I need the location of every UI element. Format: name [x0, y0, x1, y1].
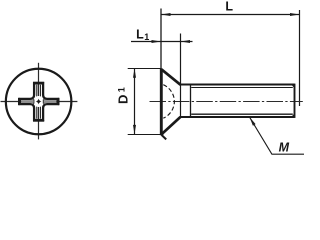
extension line above head face [160, 9, 162, 70]
burr edge stub below head corner [162, 135, 167, 140]
extension line right (screw end) [299, 10, 301, 106]
dimension D1 bottom arrowhead [133, 125, 136, 134]
right wing inner cap line [42, 99, 44, 103]
dimension L1 line [131, 41, 193, 43]
recess slot line bottom-left [33, 103, 37, 118]
svg-text:M: M [279, 141, 290, 155]
dimension L right arrowhead [290, 13, 300, 16]
phillips recess center star [36, 99, 42, 105]
svg-text:1: 1 [117, 87, 127, 92]
dimension D1 line [134, 68, 136, 134]
svg-text:L: L [136, 28, 144, 42]
svg-text:1: 1 [144, 32, 149, 42]
label D1 [115, 87, 130, 104]
dimension L1 left arrowhead [152, 40, 162, 43]
head outline circle (front view) [6, 69, 72, 135]
recess hidden dashed arc [163, 85, 174, 119]
phillips recess outer cross outline [20, 83, 58, 120]
phillips recess gray wing left [21, 100, 33, 103]
cross top end cap [33, 82, 44, 84]
thread start line [190, 85, 192, 118]
svg-text:D: D [115, 95, 130, 104]
head left face [160, 69, 163, 136]
shaft bottom edge [180, 116, 295, 118]
recess slot line bottom-right [40, 103, 44, 118]
head cone bottom edge [161, 117, 180, 134]
front view vertical centerline [38, 63, 40, 140]
head cone top edge [161, 69, 180, 85]
D1 extension line bottom [128, 134, 164, 136]
cross right end cap [58, 98, 60, 105]
dimension L left arrowhead [161, 13, 171, 16]
end chamfer top [292, 85, 295, 88]
end chamfer bottom [292, 114, 295, 117]
cone/shaft junction + L1 extension line [180, 34, 182, 118]
side view dash-dot centerline [150, 101, 303, 103]
dimension D1 top arrowhead [133, 68, 136, 78]
thread minor line top [191, 87, 293, 89]
recess center white floor [33, 96, 44, 107]
leader line M diagonal [250, 117, 304, 154]
cross bottom end cap [33, 120, 44, 122]
screw end face [294, 84, 296, 118]
dimension L line [161, 14, 300, 16]
D1 extension line top [128, 68, 162, 70]
cross left end cap [18, 98, 20, 105]
leader arrowhead [250, 117, 256, 126]
thread minor line bottom [191, 113, 293, 115]
front view horizontal centerline [1, 101, 78, 103]
recess slot line top-right [40, 85, 44, 100]
shaft top edge [180, 84, 295, 86]
dimension L1 right arrowhead [181, 40, 191, 43]
svg-text:L: L [225, 0, 233, 14]
left wing inner cap line [33, 99, 35, 103]
recess slot line top-left [33, 85, 37, 100]
phillips recess gray wing right [44, 100, 57, 103]
